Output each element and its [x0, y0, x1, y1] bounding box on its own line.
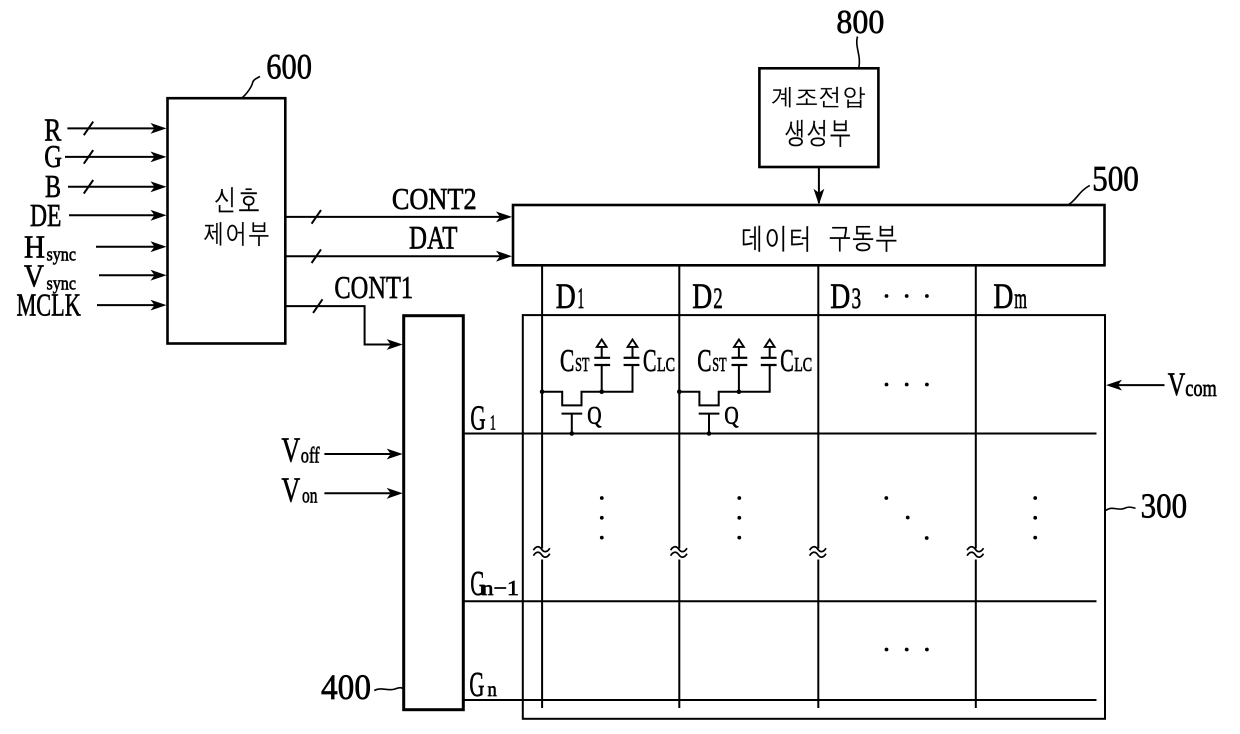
bus slash on CONT2 [312, 210, 321, 224]
label 계조전압 line1 in U800 [772, 87, 865, 108]
ellipsis dots between D3 and Dm (Gn row) [885, 648, 889, 652]
svg-text:off: off [301, 443, 320, 468]
open arrowhead terminal of CST of pixel1 [597, 340, 607, 347]
leader line for 500 [1068, 185, 1090, 205]
data driver box U500 [513, 205, 1105, 265]
svg-text:3: 3 [852, 282, 862, 315]
break symbol on D3 [810, 547, 826, 552]
node: junction dot of pixel2 at storage cap stem [737, 389, 742, 394]
vertical ellipsis dots at x=601.8 [600, 496, 604, 500]
svg-text:DAT: DAT [409, 221, 457, 257]
break symbol on D1 [533, 547, 549, 552]
arrow from U800 to U500 [818, 167, 820, 203]
svg-text:Q: Q [724, 403, 738, 430]
diagonal ellipsis dots [884, 496, 888, 500]
svg-text:1: 1 [490, 411, 496, 435]
data line D2 [678, 265, 680, 708]
open arrowhead terminal of CLC of pixel2 [765, 340, 775, 347]
gate line G1 [464, 433, 1097, 435]
capacitor CLC of pixel2 [761, 364, 777, 366]
input signal wire MCLK [97, 304, 157, 306]
svg-text:MCLK: MCLK [17, 287, 81, 323]
transistor Q of pixel1: source/drain path [542, 365, 632, 405]
svg-text:600: 600 [266, 47, 312, 87]
node: gate junction dot of pixel2 on G1 [707, 431, 712, 436]
capacitor CST of pixel1 [601, 365, 603, 392]
svg-text:400: 400 [321, 667, 371, 707]
svg-text:300: 300 [1141, 487, 1188, 526]
svg-text:D: D [993, 276, 1013, 316]
ellipsis dots between D3 and Dm (pixel row) [885, 383, 889, 387]
svg-text:CONT1: CONT1 [334, 269, 413, 305]
open arrowhead terminal of CST of pixel2 [734, 340, 744, 347]
Von input wire [324, 492, 393, 494]
svg-text:ST: ST [712, 354, 726, 376]
node: junction dot of pixel2 on data line D2 [677, 389, 682, 394]
leader line for 600 [242, 77, 261, 99]
label 데이터 in U500 [743, 226, 808, 252]
bus slash on CONT1 [313, 299, 322, 313]
svg-text:n: n [488, 677, 498, 701]
Voff input wire [324, 453, 393, 455]
node: junction dot of pixel1 at storage cap stem [599, 389, 604, 394]
svg-text:n−1: n−1 [482, 576, 520, 600]
svg-text:800: 800 [836, 4, 884, 41]
DAT wire from U600 to U500 [285, 255, 502, 257]
svg-text:com: com [1185, 376, 1217, 402]
ellipsis dots between D3 and Dm (label row) [885, 294, 889, 298]
leader line for 300 [1106, 507, 1136, 510]
gate line Gn [464, 699, 1097, 701]
svg-text:V: V [1168, 367, 1186, 403]
bus slash on G [84, 150, 93, 164]
bus slash on DAT [312, 249, 321, 263]
input signal wire H [96, 246, 157, 248]
svg-text:C: C [697, 342, 711, 378]
input signal wire G [65, 156, 157, 158]
svg-text:LC: LC [657, 354, 675, 376]
gate line Gn-1 [464, 600, 1097, 602]
svg-text:m: m [1014, 282, 1027, 315]
LC panel box 300 [523, 315, 1105, 719]
leader line for 400 [374, 688, 404, 691]
svg-text:D: D [556, 276, 576, 316]
gray voltage generator box U800 [759, 68, 878, 167]
input signal wire R [67, 127, 156, 129]
input signal wire B [68, 186, 157, 188]
vertical ellipsis dots at x=1035.2 [1033, 496, 1037, 500]
capacitor CST of pixel2 [738, 365, 740, 392]
label 제어부 (controller) line2 in U600 [204, 222, 268, 246]
input signal wire DE [69, 214, 157, 216]
svg-text:V: V [282, 470, 301, 509]
label 구동부 in U500 [830, 226, 897, 252]
svg-text:V: V [282, 430, 301, 469]
svg-text:500: 500 [1092, 159, 1139, 199]
transistor Q of pixel2: gate lead to gate line G1 [708, 414, 710, 434]
svg-text:C: C [560, 342, 574, 378]
break symbol on D2 [671, 547, 687, 552]
svg-text:on: on [302, 483, 318, 508]
signal controller box U600 [168, 98, 286, 343]
svg-text:2: 2 [713, 282, 723, 315]
svg-text:D: D [830, 276, 850, 316]
bus slash on R [84, 122, 93, 136]
Vcom input wire [1116, 384, 1165, 386]
CONT1 wire from U600 to U400 [285, 306, 393, 344]
transistor Q of pixel1: gate bar [562, 413, 583, 415]
data line D3 [817, 265, 819, 708]
svg-text:1: 1 [578, 282, 585, 315]
data line D1 [541, 265, 543, 708]
transistor Q of pixel1: gate lead to gate line G1 [571, 414, 573, 434]
svg-text:ST: ST [575, 354, 589, 376]
CONT2 wire from U600 to U500 [285, 216, 502, 218]
bus slash on B [84, 180, 93, 194]
label 신호 (signal) line1 in U600 [215, 187, 259, 212]
capacitor CLC of pixel1 [624, 364, 640, 366]
svg-text:LC: LC [794, 354, 812, 376]
data line Dm [975, 265, 977, 708]
svg-text:Q: Q [587, 403, 601, 430]
break symbol on Dm [967, 547, 983, 552]
svg-text:G: G [470, 398, 485, 437]
transistor Q of pixel2: source/drain path [679, 365, 769, 405]
leader line for 800 [857, 37, 860, 68]
svg-text:D: D [692, 276, 712, 316]
gate driver box U400 [404, 316, 464, 710]
svg-text:C: C [643, 342, 657, 378]
transistor Q of pixel2: gate bar [699, 413, 720, 415]
svg-text:G: G [469, 665, 484, 704]
input signal wire V [99, 274, 157, 276]
label 생성부 line2 in U800 [785, 120, 849, 147]
node: gate junction dot of pixel1 on G1 [570, 431, 575, 436]
open arrowhead terminal of CLC of pixel1 [628, 340, 638, 347]
vertical ellipsis dots at x=739.3 [737, 496, 741, 500]
svg-text:CONT2: CONT2 [392, 182, 477, 216]
node: junction dot of pixel1 on data line D1 [540, 389, 545, 394]
svg-text:sync: sync [47, 245, 77, 266]
svg-text:C: C [780, 342, 794, 378]
